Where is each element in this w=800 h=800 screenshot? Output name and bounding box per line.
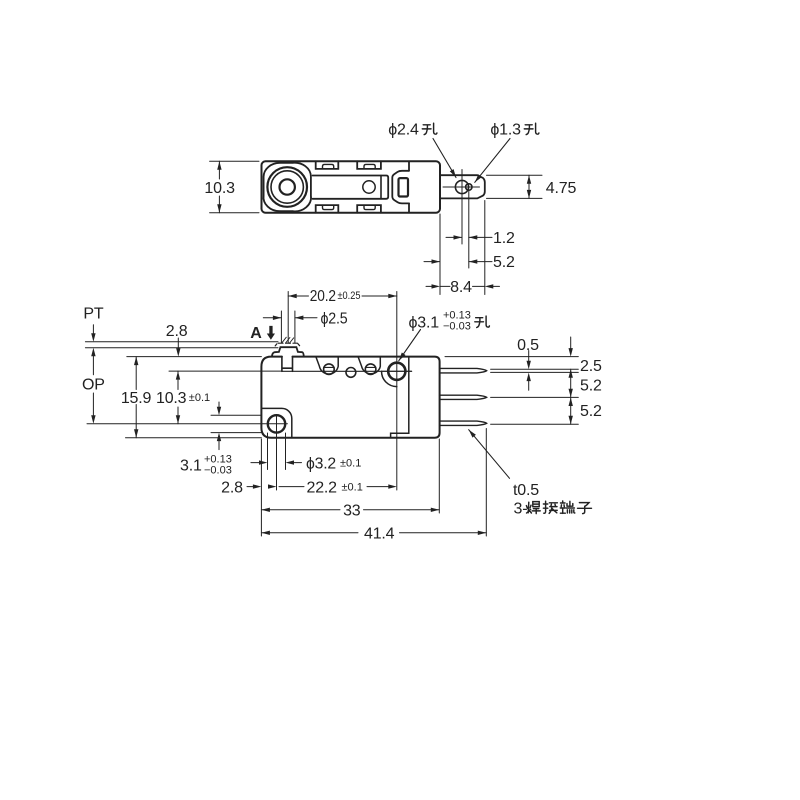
svg-text:±0.1: ±0.1 (342, 481, 363, 493)
latch pocket 1 (316, 357, 338, 374)
latch pocket 2 (358, 357, 380, 374)
svg-text:5.2: 5.2 (580, 403, 602, 420)
leader line hole 1.3 (475, 139, 510, 183)
keyhole large circle (455, 180, 468, 193)
right stack dimension line (570, 337, 572, 424)
svg-text:ϕ3.2: ϕ3.2 (306, 455, 336, 472)
tab bottom 1 bridge detail (323, 205, 334, 209)
svg-text:2.5: 2.5 (580, 358, 602, 375)
svg-text:±0.1: ±0.1 (340, 457, 361, 469)
latch bracket (392, 171, 409, 204)
hole 3.1 centerline vertical (396, 292, 398, 491)
plunger centerline extension (287, 292, 289, 344)
svg-text:3.1: 3.1 (180, 458, 202, 475)
top view body outline (262, 161, 441, 212)
svg-text:ϕ1.3: ϕ1.3 (490, 122, 521, 139)
terminal 2 blade (440, 395, 487, 399)
svg-text:3-: 3- (514, 501, 528, 518)
plunger diameter extension lines (281, 311, 295, 343)
pocket 2 circle (365, 364, 376, 375)
hole 3.2 centerline extension (276, 433, 278, 490)
svg-text:A: A (250, 325, 262, 342)
svg-text:±0.1: ±0.1 (189, 392, 210, 404)
bushing tab verticals top (280, 161, 292, 163)
svg-text:ϕ2.5: ϕ2.5 (321, 311, 348, 328)
keyhole crosshair (443, 170, 480, 205)
hole 3.2 crosshair vertical (276, 415, 278, 434)
svg-text:2.8: 2.8 (166, 323, 188, 340)
middle circle (346, 368, 356, 378)
svg-text:−0.03: −0.03 (204, 465, 232, 477)
terminal 3 blade (440, 421, 487, 425)
mounting tab bottom 1 (316, 205, 339, 213)
cover inner rectangle (313, 176, 389, 199)
bushing outer circle (267, 167, 307, 207)
pocket 1 circle (324, 364, 335, 375)
bushing tab verticals bottom (280, 211, 292, 213)
svg-text:15.9: 15.9 (121, 390, 152, 407)
dimension 20.2 line (288, 295, 397, 297)
tab 2 bridge detail (364, 164, 375, 168)
plunger hatch marks (282, 337, 294, 343)
dimension 1.2 (446, 236, 492, 238)
cover small circle (363, 181, 375, 193)
dimension 10.3 line (218, 161, 220, 212)
glyph kong after phi3.1 (475, 316, 490, 327)
keyhole small circle (466, 184, 472, 190)
dimension 33 (261, 509, 439, 511)
leader line hole 3.1 (399, 330, 421, 361)
A arrow (267, 326, 275, 340)
svg-text:t0.5: t0.5 (513, 482, 539, 499)
body bottom extension left (126, 437, 262, 439)
dimension 2.8 bottom (247, 486, 253, 488)
dimension 3.1 arrows (218, 402, 220, 450)
dimension 10.3 extension lines (210, 161, 259, 212)
terminal 3 extension line (491, 423, 579, 425)
extension line keyhole center (461, 205, 463, 245)
svg-text:±0.25: ±0.25 (338, 290, 361, 302)
glyph kong after phi1.3 (524, 123, 539, 134)
svg-text:2.8: 2.8 (221, 479, 243, 496)
bottom left boss (261, 408, 291, 437)
side view body outline (261, 357, 439, 438)
svg-text:ϕ2.4: ϕ2.4 (388, 122, 419, 139)
operating position line (85, 347, 278, 349)
svg-text:10.3: 10.3 (156, 390, 187, 407)
mounting tab top 2 (357, 161, 381, 169)
extension line body left bottom (260, 439, 262, 536)
svg-text:OP: OP (82, 376, 105, 393)
mounting tab bottom 2 (357, 205, 381, 213)
svg-text:33: 33 (343, 503, 361, 520)
hole 3.1 bold circle (388, 363, 405, 380)
glyph jie (connect) (543, 501, 557, 513)
glyph kong after phi2.4 (422, 123, 437, 134)
latch slot (399, 178, 409, 196)
free position line (85, 341, 278, 343)
svg-text:−0.03: −0.03 (443, 320, 471, 332)
dimension 4.75 line (528, 175, 530, 198)
hole 3.2 tangent extension lines (268, 433, 286, 470)
plunger flange (272, 347, 304, 356)
hole 3.2 bold circle (268, 415, 285, 432)
svg-text:5.2: 5.2 (493, 254, 515, 271)
hole 3.2 tangent lines left (211, 415, 261, 432)
svg-text:PT: PT (83, 305, 103, 322)
svg-text:10.3: 10.3 (204, 180, 235, 197)
hole 3.1 crosshair horizontal (381, 370, 411, 372)
hole 3.1 boss arc (382, 371, 397, 386)
plunger free position dashes (275, 343, 299, 346)
dimension 41.4 (261, 532, 486, 534)
glyph han (solder) (526, 502, 540, 514)
actuator arm (440, 175, 485, 198)
dimension 10.3 side line (177, 371, 179, 424)
pocket 2 chord (365, 366, 376, 368)
dimension 8.4 (426, 285, 500, 287)
OP dimension arrow (92, 393, 94, 416)
cover division line (380, 176, 382, 199)
leader line hole 2.4 (433, 139, 456, 178)
bushing ring circle (271, 171, 303, 203)
svg-text:0.5: 0.5 (517, 337, 539, 354)
svg-text:8.4: 8.4 (450, 279, 472, 296)
inner contour right (391, 358, 409, 438)
dimension 4.75 extension lines (487, 175, 543, 198)
svg-text:4.75: 4.75 (546, 180, 577, 197)
stem bottom extension left (169, 370, 282, 372)
svg-text:ϕ3.1: ϕ3.1 (409, 314, 440, 331)
dimension phi3.2 (251, 462, 302, 464)
pocket 1 chord (324, 366, 335, 368)
internal lever line (282, 370, 412, 372)
extension line small hole (468, 191, 470, 268)
extension line terminal tips bottom (485, 429, 487, 537)
svg-text:22.2: 22.2 (307, 479, 338, 496)
PT dimension arrows (92, 325, 94, 375)
bushing hole circle (280, 179, 295, 194)
dimension phi2.5 (263, 317, 317, 319)
body top extension left (127, 356, 262, 358)
svg-text:5.2: 5.2 (580, 377, 602, 394)
dimension 0.5 (528, 351, 530, 391)
extension line body right edge (439, 214, 441, 295)
svg-text:1.2: 1.2 (493, 230, 515, 247)
dimension 22.2 (279, 486, 389, 488)
body top extension right (445, 356, 578, 358)
terminal 2 extension line (491, 396, 579, 398)
mounting tab top 1 (316, 161, 339, 169)
terminal 1 blade (440, 368, 487, 373)
tab 1 bridge detail (323, 164, 334, 168)
dimension 5.2 (424, 261, 492, 263)
tab bottom 2 bridge detail (364, 205, 375, 209)
svg-text:20.2: 20.2 (310, 288, 336, 305)
glyph duan (terminal) (560, 501, 575, 513)
leader line t0.5 (469, 430, 510, 479)
plunger stem (282, 357, 293, 372)
bushing boss rounded square (263, 163, 311, 212)
terminal 1 extension lines (491, 369, 579, 372)
extension line body right bottom (438, 439, 440, 513)
hole centerline left (87, 423, 287, 425)
glyph zi (element) (578, 503, 592, 514)
dimension 15.9 line (135, 357, 137, 438)
latch end verticals (408, 162, 410, 213)
svg-text:41.4: 41.4 (364, 526, 395, 543)
extension line arm tip (484, 201, 486, 295)
dimension 2.8 top arrow (177, 338, 179, 349)
